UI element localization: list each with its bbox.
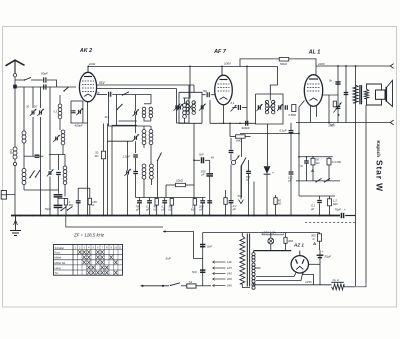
wire x319.5 (319, 196, 321, 216)
capacitor pad dark (56, 173, 61, 175)
wire x209.7 det (209, 160, 211, 173)
switch osc section (122, 92, 129, 96)
wire branch x40.5 (40, 87, 42, 108)
volume pot (231, 156, 239, 165)
fuse bracket (262, 234, 284, 235)
resistor 50k bias (311, 158, 315, 165)
wire coupling y133.4 (240, 133, 299, 135)
wire x193.6 down (194, 232, 203, 259)
ground symbol (10, 216, 21, 236)
wire primary bottom (242, 284, 250, 288)
svg-text:Ω: Ω (92, 203, 94, 207)
wire coil x24 top (23, 87, 25, 131)
wire secondary top (253, 251, 255, 253)
wire y198 link (58, 198, 66, 200)
label 70pF (45, 207, 52, 211)
wire fuse to transformer (196, 285, 211, 287)
svg-text:415: 415 (105, 115, 110, 119)
svg-text:0,1: 0,1 (231, 101, 235, 105)
svg-text:125: 125 (227, 266, 232, 270)
switch at coil top (63, 87, 68, 92)
IFT1 trimmer right (199, 104, 206, 111)
label 40k row (154, 205, 158, 212)
junction dots bus (19, 215, 330, 217)
wire stub 164.7 (164, 198, 166, 216)
capacitor 0,1 output (344, 93, 349, 95)
wire x103.5 long (103, 124, 105, 216)
wire coil LW bottom (64, 185, 66, 197)
tube AK2 grid dashes (82, 81, 94, 92)
capacitor AF7 anode (238, 105, 240, 110)
junction dots top rail (87, 65, 356, 67)
capacitor 5nF output (335, 82, 340, 84)
wire secondary tap stub (255, 267, 260, 269)
label 0,1uF right (310, 204, 315, 211)
label 10kOhm (176, 179, 184, 183)
antenna coil upper (22, 131, 26, 143)
wire tank coil top (183, 98, 186, 104)
band box left wire (109, 95, 151, 127)
capacitor coupling y87 (44, 84, 46, 89)
wire tank coil bottom (184, 118, 186, 123)
svg-text:TA: TA (237, 194, 240, 198)
wire x127.6 long (127, 141, 129, 215)
tube label AK2 (79, 48, 92, 54)
wire x58.5 upper (58, 155, 60, 171)
switch pickup a (60, 207, 66, 212)
label 0,1uF coupling (280, 129, 287, 133)
label 50p grid (203, 90, 208, 93)
svg-text:140: 140 (227, 272, 232, 276)
wire x135.6 upper (135, 95, 137, 111)
wire AF7 anode (232, 107, 247, 109)
label diode plus (272, 171, 274, 175)
wire y154.5 link (49, 154, 65, 156)
grid cap box left wire (71, 101, 88, 123)
coil pair lower (142, 130, 153, 145)
IFT1 box (179, 92, 202, 123)
wire coil 0,3 bottom (59, 119, 61, 130)
trimmer pad left (53, 135, 60, 142)
speaker cone bar (385, 87, 387, 102)
IFT2 box (256, 94, 284, 124)
speaker loop bottom (367, 99, 382, 105)
wire y231.5 (163, 231, 194, 233)
speaker voice coil (364, 89, 368, 98)
dropper resistor Urdox (331, 282, 344, 289)
label 150 (92, 200, 97, 207)
wire y197.5 mid (136, 197, 206, 199)
svg-text:5nF: 5nF (199, 152, 204, 156)
label 50pF (41, 72, 48, 76)
label 1,2M right (333, 199, 338, 206)
wire x299 to y196 (298, 181, 300, 196)
svg-text:5nF: 5nF (192, 270, 197, 274)
tube AZ1 heater pins (256, 272, 303, 281)
label 5nF output (329, 79, 333, 83)
wire x194 long (193, 123, 195, 197)
tube AZ1 heater pin 2 (303, 272, 314, 285)
svg-text:Mittel: Mittel (55, 256, 62, 260)
wire AF7 grid (202, 94, 215, 96)
label 0,1 row a (145, 205, 150, 212)
transformer secondary HT (252, 253, 255, 263)
capacitor 1,5nF (133, 155, 138, 157)
wire x210 stub (209, 100, 211, 123)
wire x89.8 stub (89, 188, 91, 215)
wire speaker return bottom (356, 283, 367, 287)
label 125V (305, 280, 313, 284)
svg-text:100V: 100V (224, 62, 232, 66)
capacitor AK2 anode (109, 92, 111, 97)
wire stub 149.5 (149, 198, 151, 216)
coil x15 wave (13, 147, 17, 159)
label 1M row (191, 205, 195, 212)
resistor 50k in top rail (279, 57, 289, 61)
wire bias tops (306, 156, 329, 161)
switch mains (170, 283, 180, 286)
wire y196 (299, 195, 335, 197)
label Urdox (333, 278, 339, 282)
svg-text:50kΩ: 50kΩ (280, 62, 288, 66)
label 0,02 coil (9, 149, 12, 154)
svg-text:μF: μF (200, 173, 205, 177)
resistor 1M small (64, 199, 67, 205)
wire x116.6 (116, 95, 118, 126)
svg-text:0,02: 0,02 (9, 149, 12, 154)
wire stub 225.5 (225, 190, 227, 216)
wire stub 156.7 (156, 198, 158, 216)
wire antenna y87 (15, 86, 77, 88)
wire bias bottoms (307, 163, 330, 181)
svg-text:μF: μF (310, 207, 315, 211)
waveband switch table (54, 245, 123, 276)
svg-text:pF: pF (135, 207, 140, 211)
label 50k row (169, 205, 173, 212)
label 700pF row (135, 205, 141, 212)
label 0,3 coil (54, 111, 58, 114)
svg-text:kΩ: kΩ (278, 201, 281, 205)
wire x320 cap (319, 250, 321, 285)
svg-text:50: 50 (34, 105, 37, 109)
tube AF7 envelope (215, 75, 233, 105)
IF frequency note (73, 233, 105, 238)
label 1M (236, 139, 243, 143)
resistor field coil (353, 85, 358, 103)
svg-text:1μF: 1μF (330, 123, 335, 127)
svg-text:220k: 220k (88, 62, 96, 66)
IFT2 coil right (272, 100, 275, 114)
wire left rail x15 (14, 87, 16, 216)
svg-text:AZ 1: AZ 1 (293, 243, 304, 248)
diode detector (264, 160, 271, 216)
wire 300ohm (319, 233, 321, 251)
label 1uF tone (330, 123, 335, 127)
resistor 1M row (193, 199, 196, 206)
capacitor 5nF lower (200, 270, 205, 272)
wire x40.5 down (40, 117, 42, 216)
oscillator tank coil (183, 104, 187, 119)
svg-text:7A: 7A (189, 280, 193, 284)
svg-text:pF: pF (245, 178, 249, 182)
tube AZ1 anodes (296, 259, 305, 264)
capacitor 700pF row (137, 201, 142, 203)
switch band mid (116, 104, 122, 110)
svg-text:Kurz: Kurz (55, 251, 61, 255)
label 400pF (75, 124, 83, 128)
wire x329 screen drop (328, 95, 330, 124)
tube AL1 cathode pins (311, 106, 317, 123)
wire x78.2 stub (77, 188, 79, 215)
tube AF7 grid cap (207, 92, 209, 97)
osc tank box (177, 85, 190, 123)
tone trimmer (334, 103, 342, 113)
svg-text:40Ω: 40Ω (288, 239, 293, 243)
svg-text:70μF: 70μF (335, 208, 342, 212)
trimmer cap band1 (30, 109, 37, 116)
wire osc coils bottom (144, 118, 151, 121)
wire y232.5 seg (203, 232, 320, 234)
dashed chassis line (305, 222, 355, 224)
label 415 (105, 115, 110, 119)
svg-text:110: 110 (227, 260, 232, 264)
trimmer cap band2 (37, 109, 44, 116)
speaker magnet body (376, 90, 386, 99)
capacitor IFT2 right (285, 105, 287, 110)
resistor 1M row2 (224, 198, 227, 205)
tube AK2 cathode lead (87, 102, 89, 216)
transformer OT core (360, 85, 362, 104)
pilot lamp (268, 238, 274, 244)
capacitor 0,1uF coupling (289, 123, 294, 134)
trimmer mid lower (132, 134, 139, 141)
IFT1 top stub (193, 85, 195, 92)
oscillator coil pair upper (142, 107, 152, 118)
capacitor 50pF (44, 77, 46, 82)
wire heater line y284.8 (257, 284, 332, 286)
wire secondary bottom (254, 283, 258, 285)
wire 1M right (245, 136, 250, 138)
capacitor 0,1 row a (147, 201, 152, 203)
wire y185 right (186, 184, 195, 186)
junction dots y123.3 (223, 122, 248, 124)
wire coil LW top (64, 155, 66, 167)
wire x112 long (111, 126, 113, 216)
wire third coils bottom (144, 179, 151, 197)
wire y160.3 det (194, 159, 210, 161)
transformer core (247, 234, 249, 287)
capacitor 70pF stack (54, 195, 63, 208)
resistor 40k row (155, 199, 158, 206)
svg-text:μF: μF (232, 207, 237, 211)
grid cap box right wire (71, 101, 83, 123)
svg-text:45: 45 (211, 156, 215, 160)
wire switch to cap (31, 79, 43, 81)
wire AK2 y85 (97, 84, 194, 86)
wire output y122.5 (296, 122, 390, 124)
label 1M small (69, 200, 73, 207)
tube AL1 envelope (304, 75, 322, 107)
label detector cap (245, 175, 250, 182)
wire stub 139.5 (139, 198, 141, 216)
switch wave band left (29, 171, 34, 179)
svg-text:50μF: 50μF (325, 255, 332, 259)
wire x135.6 ift (135, 141, 137, 153)
svg-text:Mittel Tel.: Mittel Tel. (55, 261, 67, 265)
wire x241.5 low (241, 166, 243, 198)
capacitor extra row (207, 201, 212, 203)
wire x50 lower (49, 177, 51, 216)
svg-text:5n: 5n (300, 164, 303, 168)
label 5nF upper (207, 245, 212, 249)
wire lamp top (270, 233, 272, 239)
capacitor 0,1 small (76, 201, 81, 203)
bus y250.6 (254, 250, 292, 252)
transformer secondary heater2 (252, 277, 255, 290)
svg-text:5n: 5n (329, 79, 333, 83)
connector bottom right (390, 120, 393, 125)
label 0,1 AF7 (231, 101, 235, 105)
svg-text:kΩ: kΩ (316, 161, 319, 165)
capacitor 0,1 row b (162, 201, 167, 203)
svg-text:0,3: 0,3 (54, 111, 58, 114)
capacitor x291 (289, 172, 294, 174)
switch detector (157, 153, 162, 162)
wire screen feed drop (270, 66, 277, 94)
wire IFT2 bottom stem (267, 124, 269, 160)
svg-text:0,1μF: 0,1μF (280, 129, 287, 133)
label 5nF lower (192, 270, 197, 274)
IFT1 lacing (186, 102, 195, 113)
wire osc feed drop x190 (183, 66, 190, 98)
trimmer mid upper (132, 109, 139, 116)
label 50p anode (96, 91, 101, 94)
junction dot 194 (193, 159, 195, 161)
svg-text:5nF: 5nF (207, 245, 212, 249)
resistor 10k horizontal (176, 183, 186, 186)
svg-text:0,4 MΩ: 0,4 MΩ (332, 160, 342, 164)
label 0,1 row b (161, 205, 166, 212)
switch antenna (24, 77, 31, 80)
switch pickup b (67, 207, 73, 211)
svg-text:ZF = 128,5 kHz: ZF = 128,5 kHz (73, 233, 105, 238)
resistor 1,2M right (328, 199, 332, 206)
wire x135.6 mid (135, 115, 137, 133)
wire terminal to rail (6, 194, 15, 196)
wire lamp bottom (270, 244, 272, 251)
wire rail step up (240, 59, 316, 75)
title Kapsch (rotated) (376, 141, 381, 158)
wire osc coils top (144, 100, 151, 104)
svg-text:AK 2: AK 2 (79, 48, 92, 54)
wire x231 det (230, 138, 232, 161)
tube AK2 top lead (87, 66, 89, 72)
coil pair third (142, 164, 153, 179)
trimmer band left (47, 169, 54, 176)
coil 0,3 AK2 left (58, 104, 62, 119)
ground bus right tail (345, 215, 355, 217)
wire AL1 screen (323, 94, 339, 96)
capacitor 5nF upper (200, 245, 205, 247)
IFT1 coil right (192, 101, 195, 115)
IFT2 trimmer right (277, 104, 283, 111)
label 0,4M bias (332, 160, 342, 164)
wire x24 mid (23, 143, 25, 169)
wire stub 275.5 (275, 195, 277, 216)
resistor 50k far right row (274, 198, 277, 205)
svg-text:50p: 50p (96, 91, 101, 94)
wire anode cap to osc (112, 95, 151, 104)
terminal mains (141, 285, 170, 287)
label 200pF row (198, 205, 204, 212)
label 50k AK2 (95, 151, 99, 158)
svg-text:+: + (322, 250, 324, 254)
svg-text:50pF: 50pF (41, 72, 48, 76)
svg-text:400pF: 400pF (242, 126, 250, 130)
capacitor detector (246, 171, 251, 173)
switch bias 1 (315, 178, 321, 182)
capacitor 5nF det (202, 157, 204, 163)
wire x346 (345, 66, 347, 123)
terminal circle x15 (13, 162, 16, 165)
svg-text:AF 7: AF 7 (213, 49, 227, 55)
svg-text:55V: 55V (99, 81, 106, 85)
junction dot 338 mid (338, 114, 340, 116)
transformer primary winding (240, 236, 245, 284)
antenna symbol (6, 60, 25, 73)
resistor 0,4M bias (327, 158, 331, 165)
svg-text:TA: TA (55, 271, 58, 275)
capacitor x231 det (229, 151, 234, 153)
resistor 150 small (88, 198, 91, 204)
wire antenna y80 (15, 79, 25, 81)
wire AZ1 output (309, 263, 321, 265)
wire x355.5 full (355, 66, 357, 286)
ground bus (11, 215, 340, 217)
wire x58 stack (57, 197, 59, 216)
resistor 0,5M right of IFT2 (292, 105, 296, 112)
label 45V (211, 156, 215, 160)
antenna lead (14, 77, 16, 87)
wire y188 link (78, 187, 90, 189)
capacitor antenna pad (35, 155, 40, 157)
label 0,5M (289, 113, 297, 117)
svg-text:220: 220 (226, 277, 232, 281)
svg-text:Lang: Lang (55, 266, 61, 270)
wire rail right of AL1 (316, 65, 390, 67)
svg-text:kΩ: kΩ (95, 154, 99, 158)
coil 0,02 AK2 left lower (61, 130, 65, 145)
label 5nF bias (300, 164, 303, 168)
svg-text:30: 30 (26, 105, 29, 109)
svg-text:AL 1: AL 1 (308, 50, 321, 56)
label 250V (327, 124, 336, 128)
wire y141.2 mid (107, 140, 132, 142)
wire stub 202.7 (202, 198, 204, 216)
svg-text:0,5MΩ: 0,5MΩ (289, 113, 297, 117)
capacitor dark AVC (133, 172, 138, 174)
fuse 7A (187, 284, 196, 288)
wire switch to fuse (181, 285, 187, 287)
tube label AL1 (308, 50, 321, 56)
wire dropper right (344, 286, 356, 288)
IFT2 coil left (265, 100, 268, 114)
label 50k (280, 62, 288, 66)
switch wave band left2 (35, 170, 40, 178)
IFT2 trimmer left (257, 104, 263, 111)
wire stub 254 (253, 182, 255, 216)
tube AL1 cathode (310, 98, 318, 101)
